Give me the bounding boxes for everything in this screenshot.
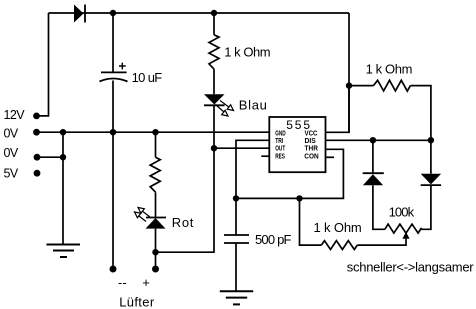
- node dot DIS right diode: [428, 137, 434, 143]
- node dot red LED fan junction: [152, 249, 158, 255]
- label 1 k Ohm right: [366, 62, 412, 77]
- svg-text:schneller<->langsamer: schneller<->langsamer: [347, 260, 475, 275]
- wire LED branch top lead: [213, 13, 215, 35]
- label 1 k Ohm bottom: [314, 220, 362, 235]
- svg-text:1 k Ohm: 1 k Ohm: [314, 220, 362, 235]
- node dot top LED junction: [211, 10, 217, 16]
- diode D4 (left steering, pointing up): [363, 173, 384, 185]
- svg-text:+: +: [142, 275, 150, 290]
- node dot rail-red branch: [152, 129, 158, 135]
- node dot TRI timing: [233, 195, 239, 201]
- label fan minus: [118, 275, 127, 290]
- pin label DIS: [305, 138, 317, 145]
- wire left steering diode upper lead: [372, 140, 374, 173]
- wire CON stub: [326, 156, 335, 158]
- pin label GND: [275, 131, 285, 138]
- node dot DIS left diode: [370, 137, 376, 143]
- wire top rail 12V: [49, 12, 350, 14]
- svg-text:RES: RES: [275, 153, 285, 160]
- wire timing node to THR: [236, 149, 343, 198]
- wire DIS rail: [326, 139, 431, 141]
- node dot VCC riser resistor: [346, 82, 352, 88]
- label Rot: [172, 215, 194, 230]
- wire OUT pin to node: [214, 147, 269, 149]
- ground (timing cap): [220, 291, 253, 304]
- node dot OUT junction: [211, 145, 217, 151]
- label 1 k Ohm top: [224, 45, 270, 60]
- svg-text:1 k Ohm: 1 k Ohm: [366, 62, 412, 77]
- wire capacitor branch lower: [112, 81, 114, 133]
- potentiometer 100k track: [385, 224, 422, 233]
- capacitor C1 10uF plates: [100, 72, 128, 81]
- wire VCC node to right 1k resistor: [349, 86, 373, 133]
- wire capacitor branch upper: [112, 13, 114, 72]
- wire between resistor and blue LED: [213, 69, 215, 94]
- terminal dot 5V: [34, 170, 41, 177]
- svg-text:Rot: Rot: [172, 215, 194, 230]
- LED D2 Blau (pointing down): [204, 94, 225, 105]
- LED D2 light arrows: [216, 101, 234, 117]
- svg-text:Blau: Blau: [239, 97, 268, 112]
- capacitor C1 plus sign: [119, 63, 126, 70]
- svg-text:12V: 12V: [4, 108, 26, 122]
- terminal dot fan plus: [152, 266, 159, 273]
- node dot rail-cap branch: [110, 129, 116, 135]
- svg-text:10 uF: 10 uF: [132, 70, 163, 85]
- diode D5 (right steering, pointing down): [421, 174, 441, 185]
- label 100k: [389, 205, 415, 220]
- svg-text:100k: 100k: [389, 205, 415, 220]
- svg-text:5V: 5V: [4, 166, 19, 180]
- label 0V second: [4, 146, 19, 160]
- terminal dot fan minus: [110, 266, 117, 273]
- svg-text:GND: GND: [275, 131, 285, 138]
- label 10 uF: [132, 70, 163, 85]
- wire left 12V riser: [37, 13, 49, 116]
- IC U1 555 title: [286, 118, 312, 132]
- label Luefter: [119, 295, 155, 309]
- potentiometer wiper arrow: [402, 232, 409, 239]
- wire right steering diode upper lead: [430, 140, 432, 174]
- svg-text:DIS: DIS: [305, 138, 317, 145]
- wire VCC pin riser to top rail: [326, 13, 350, 132]
- svg-text:THR: THR: [305, 146, 318, 153]
- terminal dot 0V: [33, 129, 40, 136]
- pin label THR: [305, 146, 318, 153]
- terminal dot 0V second: [34, 154, 41, 161]
- node dot top cap junction: [110, 10, 116, 16]
- wire between red resistor and red LED: [155, 192, 157, 217]
- label 0V: [4, 126, 19, 140]
- LED D3 light arrows: [135, 208, 151, 222]
- wire blue LED cathode down to OUT node and fan connector: [156, 105, 215, 252]
- wire bottom 1k resistor to wiper: [357, 239, 406, 245]
- pin label CON: [304, 153, 318, 160]
- wire 0V second terminal link: [37, 156, 63, 158]
- node dot timing resistor branch: [296, 195, 302, 201]
- svg-text:--: --: [118, 275, 127, 290]
- pin label VCC: [305, 131, 318, 138]
- svg-text:500 pF: 500 pF: [255, 232, 292, 247]
- svg-text:1 k Ohm: 1 k Ohm: [224, 45, 270, 60]
- wire TRI pin to timing node: [236, 140, 269, 198]
- wire node to bottom 1k resistor: [300, 198, 322, 245]
- label 500 pF: [255, 232, 292, 247]
- svg-text:Lüfter: Lüfter: [119, 295, 155, 309]
- svg-text:0V: 0V: [4, 126, 19, 140]
- label schneller langsamer: [347, 260, 475, 275]
- IC U1 555 body: [269, 117, 325, 172]
- label Blau: [239, 97, 268, 112]
- svg-text:0V: 0V: [4, 146, 19, 160]
- wire timing cap 500pF upper lead: [235, 198, 237, 235]
- svg-text:OUT: OUT: [275, 146, 286, 153]
- wire right steering diode lower lead to pot: [422, 185, 431, 229]
- wire left steering diode lower lead to pot: [373, 185, 385, 229]
- LED D3 Rot (pointing up): [146, 218, 167, 229]
- wire RES stub: [261, 155, 269, 157]
- label 12V: [4, 108, 26, 122]
- wire fan minus drop: [112, 132, 114, 265]
- diode D1 (top, pointing right): [74, 5, 85, 23]
- ground (left): [47, 245, 81, 258]
- node dot rail-trunk: [60, 129, 66, 135]
- pin label OUT: [275, 146, 286, 153]
- terminal dot 12V: [33, 113, 40, 120]
- pin label TRI: [275, 138, 283, 145]
- pin label RES: [275, 153, 285, 160]
- wire red LED branch upper lead: [155, 132, 157, 157]
- resistor R1 1k (blue LED, vertical): [209, 35, 219, 69]
- resistor R2 1k (right, horizontal): [373, 80, 410, 91]
- svg-text:TRI: TRI: [275, 138, 283, 145]
- capacitor C2 500pF plates: [224, 235, 249, 243]
- node dot trunk second 0V: [60, 154, 66, 160]
- resistor R3 1k (bottom, horizontal): [321, 241, 357, 250]
- label fan plus: [142, 275, 150, 290]
- wire right 1k resistor to right drop: [410, 86, 431, 141]
- svg-text:CON: CON: [304, 153, 318, 160]
- label 5V: [4, 166, 19, 180]
- wire timing cap 500pF lower lead: [235, 243, 237, 291]
- wire 0V rail: [37, 131, 270, 133]
- resistor R4 (red LED branch, vertical): [150, 157, 160, 192]
- wire 0V trunk down to ground: [62, 132, 64, 244]
- wire red LED anode to fan plus: [155, 229, 157, 266]
- svg-text:VCC: VCC: [305, 131, 318, 138]
